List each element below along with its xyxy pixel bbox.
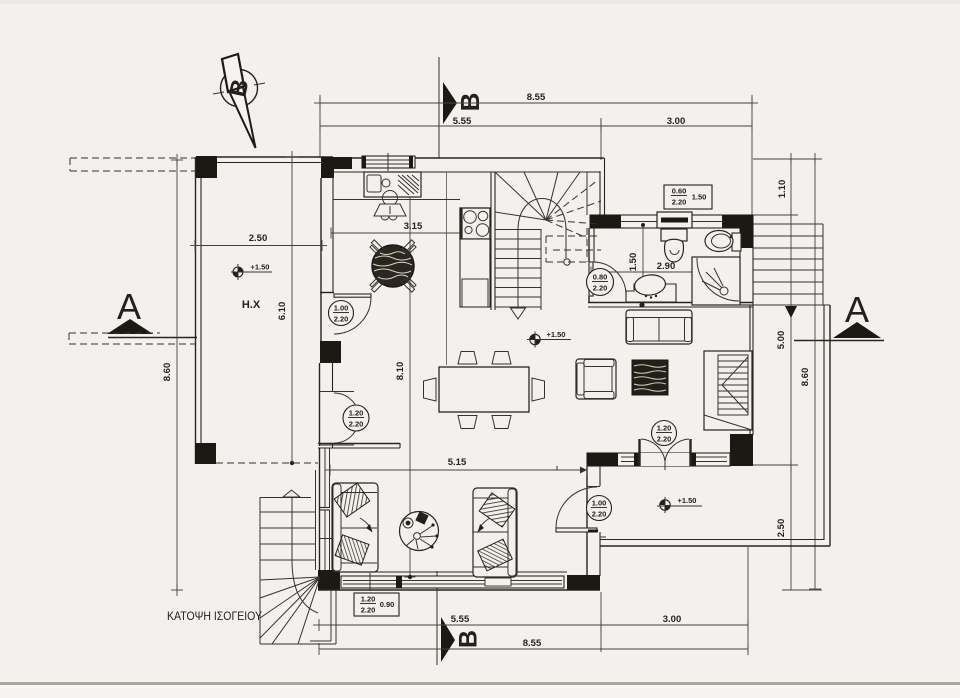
fireplace [704,351,752,430]
external stair east treads [753,224,830,305]
west wall upper (kitchen) [320,178,322,341]
kitchen counter front edge [333,199,460,201]
bathroom west wall [588,228,590,262]
svg-text:5.55: 5.55 [451,614,470,625]
svg-text:B: B [455,630,483,648]
window label 1.20/2.20 0.90 [354,593,399,616]
svg-text:2.50: 2.50 [776,519,787,538]
left protrusion column bottom-left [195,443,216,464]
section marker B bottom [437,571,483,665]
external stair west winders [260,577,320,644]
dim 2.50 protrusion [190,233,327,251]
dashed overhang lines top-left [70,157,195,159]
svg-text:8.55: 8.55 [527,92,546,103]
shower [692,257,740,305]
entrance bay west wall [586,466,588,576]
kitchen table chairs [369,240,418,292]
bottom extension lines [600,592,602,652]
top dimension line 5.55 / 3.00 [320,116,752,132]
bidet [705,231,741,252]
family coffee table [400,511,439,550]
right dimension line 1.10 / 5.00 / 2.50 [776,153,797,590]
french door swing lower [334,418,359,443]
section marker B top [439,57,485,158]
wire hall divider to bay [556,466,558,470]
right dimension line 8.60 [800,153,821,589]
kitchen sink unit [364,172,421,197]
stair newel circle [564,259,570,265]
svg-text:2.20: 2.20 [349,420,364,429]
level marker +1.50 H.X [231,263,272,281]
top dimension line 8.55 [314,92,758,109]
svg-text:2.90: 2.90 [657,261,676,272]
west wall family room [319,448,321,572]
svg-text:5.00: 5.00 [776,331,787,350]
family sofa east [473,488,517,577]
svg-text:2.20: 2.20 [361,606,376,615]
column east entrance [730,434,753,466]
vanity counter [626,273,676,302]
door label 0.80/2.20 bathroom [587,269,614,296]
family west window 2 [320,510,334,570]
svg-text:B: B [455,93,485,112]
bay door 1.00 leaf [556,528,597,532]
left protrusion H.X top wall [197,156,333,158]
external stair west outline [260,497,311,499]
dining-family opening beam [318,443,400,445]
west wall lower band [315,470,317,570]
living sofa [626,310,692,344]
svg-text:8.60: 8.60 [162,363,173,382]
bathroom window [657,212,692,228]
bottom dimension line 5.55 / 3.00 [313,614,748,631]
svg-text:1.50: 1.50 [692,193,707,202]
svg-text:1.00: 1.00 [592,499,607,508]
top extension lines [319,95,321,158]
left protrusion column top-left [196,156,217,178]
bottom dimension line 8.55 [319,638,748,655]
svg-text:ΚΑΤΟΨΗ ΙΣΟΓΕΙΟΥ: ΚΑΤΟΨΗ ΙΣΟΓΕΙΟΥ [167,609,262,623]
svg-text:1.50: 1.50 [628,253,639,272]
svg-text:2.50: 2.50 [249,233,268,244]
veranda east parapet [823,305,825,540]
bathroom east wall [740,228,753,305]
kitchen door swing [334,297,371,334]
svg-text:2.20: 2.20 [593,284,608,293]
scan band bottom [0,682,960,685]
svg-text:1.10: 1.10 [777,180,788,199]
west wall at dining [319,363,321,446]
kitchen pendant lamp [374,191,406,221]
bathroom south wall [588,302,753,304]
left protrusion dashed south edge [216,462,318,464]
svg-text:5.55: 5.55 [453,116,472,127]
dining chairs [424,352,545,429]
svg-text:6.10: 6.10 [277,302,288,321]
living east wall [749,305,751,435]
bathroom north wall [590,215,753,228]
svg-text:1.20: 1.20 [657,424,672,433]
svg-text:1.00: 1.00 [334,304,349,313]
level marker +1.50 entrance [657,496,702,513]
wire section B through building [446,172,448,365]
stair enclosure wall (kitchen side) [490,172,492,310]
svg-text:0.60: 0.60 [672,187,687,196]
family south wall with window band [318,572,600,591]
svg-text:+1.50: +1.50 [678,496,697,505]
svg-text:H.X: H.X [242,299,261,311]
dim 1.50 bathroom vertical [628,223,645,303]
bathroom door 0.80 leaf [589,262,593,296]
svg-text:+1.50: +1.50 [251,263,270,272]
left protrusion west wall [195,157,197,464]
stair upper flight dashed [546,180,601,262]
stair inner rail arch [518,199,566,231]
window label 0.60/2.20 1.50 [664,185,712,209]
bathroom door 0.80 swing [593,262,626,295]
dim 6.10 vertical [277,151,298,463]
dim 2.90 bathroom [591,261,740,278]
kitchen side counter [460,239,490,307]
section marker A right [794,289,884,341]
column family south-west [318,570,340,590]
kitchen round table [372,245,414,287]
living armchair [576,359,616,399]
living square table dark [632,360,668,395]
kitchen window [362,153,415,171]
north arrow [213,54,265,148]
section marker A left [69,286,197,344]
svg-text:2.20: 2.20 [657,435,672,444]
stair down arrow [517,230,519,308]
door label 1.00/2.20 kitchen [329,301,354,326]
node 6.10 dim dot [290,461,294,465]
svg-text:2.20: 2.20 [672,198,687,207]
svg-text:2.20: 2.20 [334,315,349,324]
stair east boundary [586,172,588,215]
dim 3.15 kitchen [331,221,491,239]
stove [460,208,490,239]
right extension lines [753,158,822,160]
family west window 1 [320,448,330,510]
column west wall [320,341,341,363]
svg-text:8.55: 8.55 [523,638,542,649]
dim 8.10 vertical [395,172,416,579]
french door swing upper [334,393,359,418]
main top wall [321,157,604,159]
door label 1.20/2.20 french [343,405,369,431]
external stair west rail curve [292,497,318,613]
svg-text:8.10: 8.10 [395,362,406,381]
svg-text:1.20: 1.20 [349,409,364,418]
stairhall east wall top [599,171,601,216]
column bay south [567,575,600,590]
svg-text:0.80: 0.80 [593,273,608,282]
stair treads [495,229,541,310]
bay door 1.00 swing [556,487,597,528]
level marker +1.50 dining [527,330,571,348]
entrance south wall [587,453,730,466]
kitchen door leaf [334,294,371,297]
dim 5.15 family [325,457,587,476]
door label 1.00/2.20 bay [587,496,612,521]
external stair west treads [260,512,315,560]
svg-text:8.60: 8.60 [800,368,811,387]
svg-text:3.00: 3.00 [663,614,682,625]
svg-text:3.15: 3.15 [404,221,423,232]
wc toilet [661,229,687,262]
left dimension line 8.60 [162,154,183,596]
svg-text:0.90: 0.90 [380,600,395,609]
svg-text:+1.50: +1.50 [547,330,566,339]
stair winder radials [495,172,580,220]
svg-text:2.20: 2.20 [592,510,607,519]
svg-text:3.00: 3.00 [667,116,686,127]
column main top-left [321,157,352,169]
entrance double door swings [638,439,640,466]
family sofa west [332,483,378,572]
door label 1.20/2.20 entrance [652,421,677,446]
svg-text:5.15: 5.15 [448,457,467,468]
dining table [439,367,529,412]
french door jambs [319,391,354,393]
svg-text:1.20: 1.20 [361,595,376,604]
living south wall / veranda parapet [600,539,824,541]
